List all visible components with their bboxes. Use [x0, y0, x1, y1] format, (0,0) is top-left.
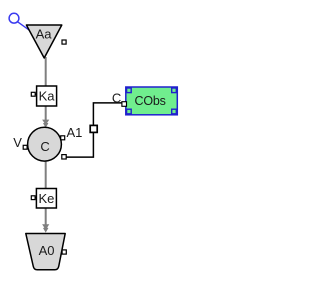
svg-text:Ka: Ka: [39, 88, 56, 103]
svg-text:Ke: Ke: [38, 191, 54, 206]
svg-text:A1: A1: [67, 125, 83, 140]
svg-text:Aa: Aa: [36, 27, 53, 42]
svg-text:V: V: [13, 135, 22, 150]
svg-text:A0: A0: [39, 243, 55, 258]
svg-text:CObs: CObs: [135, 94, 166, 108]
svg-text:C: C: [40, 139, 49, 154]
svg-text:C: C: [112, 91, 121, 106]
